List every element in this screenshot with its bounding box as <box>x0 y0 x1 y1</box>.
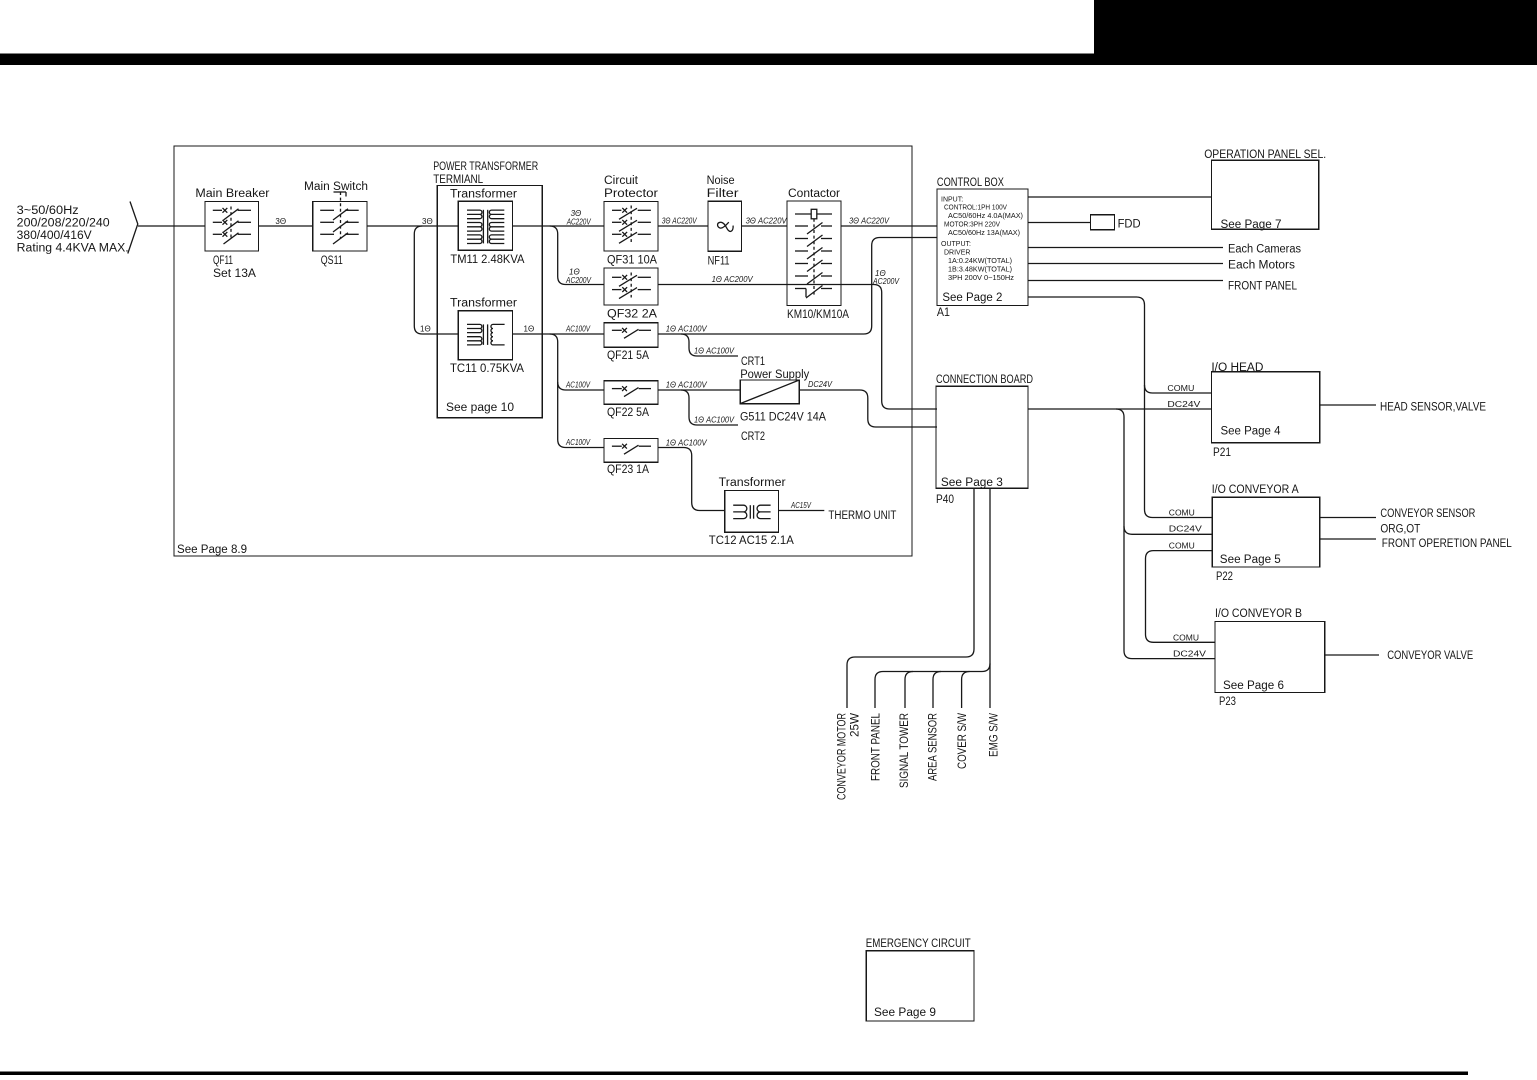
wire QF11 to QS11 <box>259 225 313 227</box>
svg-text:Transformer: Transformer <box>450 298 517 310</box>
svg-text:1Θ AC100V: 1Θ AC100V <box>694 347 735 356</box>
svg-text:1Θ AC100V: 1Θ AC100V <box>666 439 708 448</box>
svg-text:Protector: Protector <box>604 188 658 200</box>
svg-text:3PH 200V 0~150Hz: 3PH 200V 0~150Hz <box>948 275 1015 282</box>
svg-text:SIGNAL TOWER: SIGNAL TOWER <box>899 713 911 788</box>
wire branch elbow to QF22 <box>558 382 604 390</box>
svg-text:CONVEYOR VALVE: CONVEYOR VALVE <box>1387 650 1473 662</box>
svg-text:COMU: COMU <box>1167 384 1194 393</box>
svg-text:INPUT:: INPUT: <box>941 197 963 204</box>
wire QS11 to TM11 <box>367 225 458 227</box>
svg-text:TC11 0.75KVA: TC11 0.75KVA <box>450 363 524 375</box>
svg-text:P21: P21 <box>1213 447 1231 459</box>
svg-text:Each Motors: Each Motors <box>1228 260 1295 272</box>
circuit protector QF21 <box>604 323 658 362</box>
svg-text:P23: P23 <box>1219 696 1236 708</box>
wire branch to CRT2 <box>681 390 738 425</box>
svg-text:FRONT PANEL: FRONT PANEL <box>1228 281 1298 293</box>
svg-text:See Page 9: See Page 9 <box>874 1007 936 1019</box>
svg-text:QF32 2A: QF32 2A <box>607 309 657 321</box>
wire main input to QF11 <box>138 225 205 227</box>
wire bottom distribution row <box>875 664 990 709</box>
wire conveyor A COMU2 down to conveyor B <box>1146 551 1216 643</box>
svg-text:Transformer: Transformer <box>450 189 517 201</box>
circuit protector QF23 <box>604 439 658 477</box>
svg-text:P40: P40 <box>936 494 954 506</box>
svg-text:TC12 AC15 2.1A: TC12 AC15 2.1A <box>709 535 794 547</box>
svg-text:1A:0.24KW(TOTAL): 1A:0.24KW(TOTAL) <box>948 258 1012 265</box>
transformer TC12 <box>709 477 794 547</box>
svg-text:Circuit: Circuit <box>604 175 639 187</box>
wire connection board drop EMG <box>989 488 991 708</box>
connection board P40 <box>936 374 1033 506</box>
svg-text:Main Breaker: Main Breaker <box>195 188 269 200</box>
svg-text:CRT2: CRT2 <box>741 431 765 443</box>
svg-text:AC220V: AC220V <box>566 218 591 227</box>
svg-text:AC200V: AC200V <box>872 277 899 286</box>
IO conveyor A P22 <box>1212 484 1320 583</box>
bottom border bar <box>0 1072 1468 1076</box>
svg-text:Set 13A: Set 13A <box>213 268 256 280</box>
svg-text:QF11: QF11 <box>213 255 233 267</box>
wire branch main to QF32 row <box>550 226 604 285</box>
svg-text:See Page 5: See Page 5 <box>1220 554 1281 566</box>
wire power supply DC24V to connection board <box>799 390 937 427</box>
svg-text:CONNECTION BOARD: CONNECTION BOARD <box>936 374 1033 386</box>
svg-text:DC24V: DC24V <box>1173 650 1207 659</box>
node supply-input text <box>17 205 129 255</box>
wire QF32 to contactor AC200V row <box>658 284 841 286</box>
svg-text:AC50/60Hz 13A(MAX): AC50/60Hz 13A(MAX) <box>948 230 1020 237</box>
wire COMU branch to IO head <box>1145 385 1212 393</box>
svg-text:CONTROL BOX: CONTROL BOX <box>937 177 1004 189</box>
svg-text:MOTOR:3PH 220V: MOTOR:3PH 220V <box>944 222 1000 229</box>
svg-text:OUTPUT:: OUTPUT: <box>941 241 971 248</box>
svg-text:FRONT PANEL: FRONT PANEL <box>871 712 883 781</box>
wire TC11 to QF21 <box>513 333 605 335</box>
top border bar <box>0 54 1537 66</box>
svg-text:1Θ AC200V: 1Θ AC200V <box>712 275 754 284</box>
IO conveyor B P23 <box>1215 608 1325 708</box>
emergency circuit box <box>866 938 974 1021</box>
svg-text:Filter: Filter <box>707 188 739 200</box>
breaker QF11 <box>195 188 269 280</box>
svg-text:POWER TRANSFORMER: POWER TRANSFORMER <box>433 161 538 173</box>
svg-text:CRT1: CRT1 <box>741 356 765 368</box>
svg-text:DRIVER: DRIVER <box>944 250 970 257</box>
svg-text:1Θ AC100V: 1Θ AC100V <box>666 381 708 390</box>
svg-text:DC24V: DC24V <box>1167 400 1201 409</box>
svg-text:AC200V: AC200V <box>565 276 591 285</box>
transformer TC11 <box>450 298 524 376</box>
svg-text:DC24V: DC24V <box>1169 525 1203 534</box>
wire drop signal tower <box>905 672 913 709</box>
svg-text:3~50/60Hz: 3~50/60Hz <box>17 205 79 217</box>
wire control box COMU chain down <box>1028 297 1212 518</box>
node label 1ph AC200V before QF32 <box>565 268 591 286</box>
svg-text:COVER S/W: COVER S/W <box>957 713 969 769</box>
circuit protector QF32 <box>604 268 658 321</box>
IO head P21 <box>1211 362 1319 459</box>
transformer TM11 <box>450 189 525 267</box>
svg-text:P22: P22 <box>1216 571 1233 583</box>
svg-text:DC24V: DC24V <box>808 380 833 389</box>
svg-text:1Θ: 1Θ <box>524 325 535 334</box>
wire control box to front panel <box>1028 280 1223 282</box>
wire contactor to control box 3ph <box>841 225 937 227</box>
svg-text:EMERGENCY CIRCUIT: EMERGENCY CIRCUIT <box>866 938 971 950</box>
svg-text:CONVEYOR SENSOR: CONVEYOR SENSOR <box>1380 508 1475 520</box>
svg-text:See Page 4: See Page 4 <box>1221 426 1282 438</box>
svg-text:25W: 25W <box>850 713 862 737</box>
wire DC24V chain down to conveyors <box>1116 409 1215 659</box>
svg-text:Main Switch: Main Switch <box>304 181 368 193</box>
svg-text:Rating 4.4KVA MAX.: Rating 4.4KVA MAX. <box>17 243 129 255</box>
wire IO head to head sensor valve <box>1320 404 1376 406</box>
enclosure power transformer terminal <box>433 161 542 418</box>
svg-text:3Θ AC220V: 3Θ AC220V <box>746 217 788 226</box>
wire branch main down to TC11 <box>414 226 458 334</box>
svg-text:HEAD SENSOR,VALVE: HEAD SENSOR,VALVE <box>1380 402 1486 414</box>
module FDD <box>1090 215 1140 231</box>
svg-text:See page 10: See page 10 <box>446 402 514 414</box>
svg-text:1Θ: 1Θ <box>420 325 431 334</box>
svg-text:AC50/60Hz 4.0A(MAX): AC50/60Hz 4.0A(MAX) <box>948 213 1023 220</box>
wire drop cover sw <box>962 672 970 709</box>
svg-text:380/400/416V: 380/400/416V <box>17 230 92 242</box>
wire branch to CRT1 <box>681 334 738 356</box>
svg-text:OPERATION PANEL SEL.: OPERATION PANEL SEL. <box>1204 149 1326 161</box>
wire control box to each motors <box>1028 263 1223 265</box>
svg-text:COMU: COMU <box>1169 509 1195 518</box>
svg-text:CONVEYOR MOTOR: CONVEYOR MOTOR <box>837 713 849 800</box>
control box A1 <box>937 177 1028 319</box>
svg-text:FRONT OPERETION PANEL: FRONT OPERETION PANEL <box>1382 538 1513 550</box>
svg-text:EMG S/W: EMG S/W <box>989 713 1001 757</box>
svg-text:THERMO UNIT: THERMO UNIT <box>828 510 896 522</box>
svg-text:3Θ AC220V: 3Θ AC220V <box>849 217 890 226</box>
wire QF22 to power supply <box>658 389 740 391</box>
svg-text:TERMIANL: TERMIANL <box>433 174 484 186</box>
svg-text:3Θ AC220V: 3Θ AC220V <box>662 217 698 226</box>
svg-text:See Page 2: See Page 2 <box>942 292 1002 304</box>
svg-text:AREA SENSOR: AREA SENSOR <box>928 713 940 781</box>
svg-text:I/O CONVEYOR B: I/O CONVEYOR B <box>1215 608 1302 620</box>
contactor KM10/KM10A <box>787 188 849 321</box>
wire QF31 to NF11 <box>658 225 708 227</box>
svg-text:QF21 5A: QF21 5A <box>607 350 649 362</box>
svg-text:NF11: NF11 <box>708 256 730 268</box>
wire TC12 to thermo unit <box>778 510 824 512</box>
svg-text:AC100V: AC100V <box>565 438 590 447</box>
operation panel sel box <box>1204 149 1326 231</box>
svg-text:200/208/220/240: 200/208/220/240 <box>17 218 110 230</box>
svg-text:COMU: COMU <box>1169 542 1195 551</box>
svg-text:I/O CONVEYOR A: I/O CONVEYOR A <box>1212 484 1299 496</box>
circuit protector QF22 <box>604 381 658 419</box>
svg-text:A1: A1 <box>937 307 950 319</box>
svg-text:1Θ AC100V: 1Θ AC100V <box>694 416 735 425</box>
svg-text:3Θ: 3Θ <box>422 217 433 226</box>
wire control box to each cameras <box>1028 247 1223 249</box>
svg-text:CONTROL:1PH 100V: CONTROL:1PH 100V <box>944 205 1007 212</box>
svg-text:FDD: FDD <box>1118 219 1141 231</box>
svg-text:Noise: Noise <box>707 175 735 187</box>
node input bracket <box>128 202 138 254</box>
svg-text:See Page 7: See Page 7 <box>1221 219 1282 231</box>
wire branch AC100V down to QF22 QF23 <box>550 334 604 448</box>
svg-text:3Θ: 3Θ <box>275 217 286 226</box>
svg-text:1Θ AC100V: 1Θ AC100V <box>666 325 708 334</box>
svg-text:TM11 2.48KVA: TM11 2.48KVA <box>450 254 524 266</box>
svg-text:Each Cameras: Each Cameras <box>1228 244 1301 256</box>
enclosure box See Page 8.9 <box>174 146 912 556</box>
svg-text:AC100V: AC100V <box>565 325 590 334</box>
circuit protector QF31 <box>604 175 658 267</box>
wire drop area sensor <box>933 672 941 709</box>
switch QS11 <box>304 181 368 267</box>
svg-text:Power Supply: Power Supply <box>740 369 809 381</box>
wire conveyor A to front operetion panel <box>1320 538 1376 540</box>
wire QF21 up to control box AC100V <box>658 238 937 335</box>
wire QF23 down to TC12 <box>658 448 725 511</box>
wire contactor AC200V to connection board <box>841 285 937 410</box>
noise filter NF11 <box>707 175 742 268</box>
svg-text:Transformer: Transformer <box>719 477 786 489</box>
title block black box top right <box>1094 0 1537 65</box>
wire conveyor B to conveyor valve <box>1325 654 1379 656</box>
svg-text:COMU: COMU <box>1173 634 1199 643</box>
svg-text:See Page 3: See Page 3 <box>941 477 1003 489</box>
svg-text:AC15V: AC15V <box>790 501 811 510</box>
wire DC24V connection board to IO head <box>1028 408 1211 410</box>
node CONVEYOR SENSOR ORG OT <box>1380 508 1475 536</box>
wire connection board drop conveyor motor <box>847 488 974 708</box>
svg-text:QF22 5A: QF22 5A <box>607 407 649 419</box>
svg-text:1B:3.48KW(TOTAL): 1B:3.48KW(TOTAL) <box>948 267 1012 274</box>
svg-text:KM10/KM10A: KM10/KM10A <box>787 309 849 321</box>
svg-text:See Page 8.9: See Page 8.9 <box>177 544 247 556</box>
svg-text:Contactor: Contactor <box>788 188 840 200</box>
wire control box to FDD <box>1028 222 1090 224</box>
wire control box to operation panel <box>1028 196 1211 198</box>
svg-text:G511 DC24V 14A: G511 DC24V 14A <box>740 412 826 424</box>
svg-text:QF31 10A: QF31 10A <box>607 255 657 267</box>
wire NF11 to contactor <box>742 225 788 227</box>
wire DC24V branch to conveyor A <box>1124 526 1212 534</box>
svg-text:ORG,OT: ORG,OT <box>1380 524 1420 536</box>
power supply G511 <box>740 369 826 424</box>
wire conveyor A to conveyor sensor <box>1320 517 1376 519</box>
wire TM11 to QF31 <box>513 225 605 227</box>
svg-text:QS11: QS11 <box>321 255 343 267</box>
svg-text:AC100V: AC100V <box>565 381 590 390</box>
svg-text:See Page 6: See Page 6 <box>1223 680 1284 692</box>
node label 3ph AC220V before QF31 <box>566 209 591 227</box>
node label 1ph AC200V right of contactor <box>872 269 899 286</box>
node label CONVEYOR MOTOR 25W <box>837 713 862 800</box>
svg-text:QF23 1A: QF23 1A <box>607 464 649 476</box>
